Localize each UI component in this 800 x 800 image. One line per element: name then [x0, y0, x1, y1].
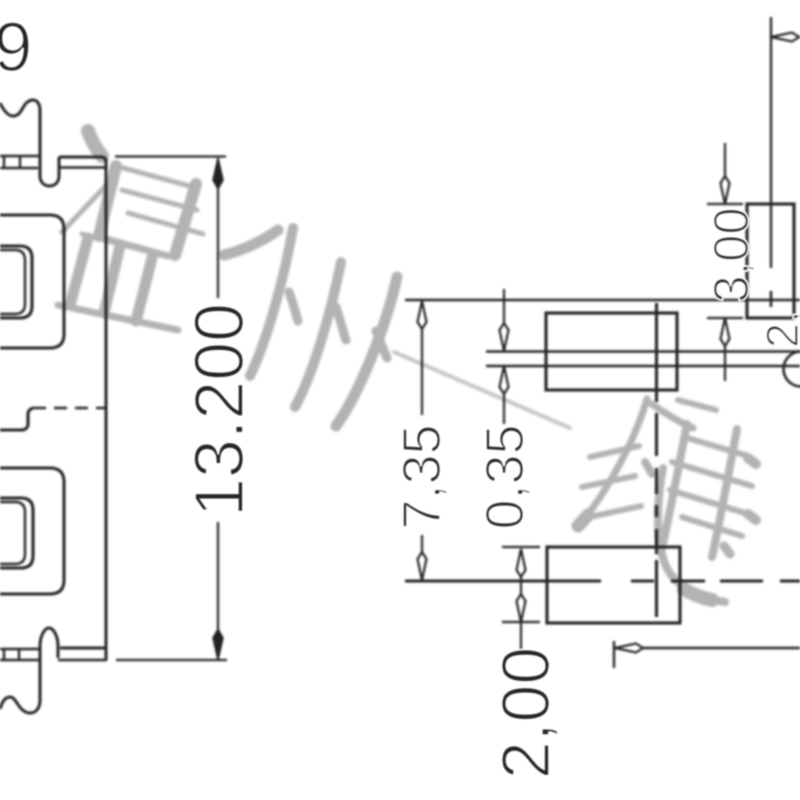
left view top rail lower line — [0, 167, 38, 170]
left view top rail upper line — [0, 155, 40, 158]
svg-text:7,35: 7,35 — [392, 424, 452, 529]
top rail tick 1 — [3, 156, 5, 168]
top right arrow — [771, 33, 799, 42]
dim 3,00 arrow lower — [721, 318, 730, 346]
svg-text:0,35: 0,35 — [475, 424, 535, 529]
watermark jian brush rung 4 — [682, 517, 742, 536]
vertical centerline seg 3 — [655, 468, 658, 494]
top pad — [546, 313, 677, 390]
watermark jian brush rung tip 2 — [748, 514, 756, 520]
dim 7,35 line upper — [421, 328, 423, 415]
svg-text:13.200: 13.200 — [180, 303, 258, 517]
watermark zhou stroke 1 — [250, 228, 293, 376]
button 1 inner A — [0, 246, 32, 318]
watermark zhou stroke 3 — [336, 277, 397, 426]
watermark jian metal falling tip — [578, 515, 588, 526]
watermark wen dish — [58, 234, 178, 330]
watermark jian small flick b — [724, 546, 730, 554]
svg-text:9: 9 — [0, 8, 32, 86]
watermark jian metal rung 2 — [582, 476, 635, 487]
tall pad — [747, 204, 794, 318]
dim 13.200 bottom extension — [116, 659, 227, 661]
dim 3,00 upper tail — [724, 143, 726, 177]
dim 3,00 tick upper — [707, 203, 743, 205]
bottom rail upper line — [0, 648, 40, 651]
datum circle — [784, 352, 800, 387]
footprint reference line — [405, 299, 800, 301]
bottom rail tick 1 — [3, 649, 5, 660]
top right extension line — [770, 17, 772, 268]
horizontal centerline seg 1 — [405, 579, 601, 582]
dim 2,00 tick lower — [502, 621, 540, 623]
dim 3,00 lower tail — [724, 345, 726, 381]
watermark yi stroke — [394, 352, 570, 428]
top right dim line — [771, 36, 800, 38]
dim 2,00 tick upper — [502, 546, 540, 548]
top terminal spring — [0, 100, 59, 186]
watermark wen water-dot — [88, 131, 102, 156]
top rail tick 2 — [19, 156, 21, 168]
body bottom edge — [60, 647, 106, 650]
dim 13.200 top extension — [115, 155, 226, 157]
watermark layer — [58, 131, 756, 602]
watermark jian brush vertical 1 — [661, 424, 687, 553]
vertical centerline seg 4 — [655, 505, 658, 517]
watermark jian brush rung 1 — [684, 437, 748, 456]
bottom sub-line — [58, 659, 107, 662]
watermark jian sweep tip — [684, 589, 712, 600]
watermark jian small flick a — [645, 462, 652, 474]
footprint edge line upper — [486, 350, 800, 353]
dim 3,00 arrow upper — [721, 176, 730, 204]
watermark jian metal falling stroke — [580, 399, 647, 524]
dim 0,35 arrow upper — [500, 323, 509, 351]
watermark jian brush rung 3 — [670, 490, 748, 514]
bottom right tick — [613, 641, 615, 668]
watermark zhou stroke 2 — [295, 262, 341, 407]
dim 13.200 line upper — [217, 158, 219, 298]
dim 3,00 tick lower — [707, 317, 743, 319]
footprint edge line lower — [486, 365, 800, 368]
svg-text:2,: 2, — [757, 310, 800, 348]
dim 13.200 line lower — [217, 522, 219, 632]
bottom terminal spring — [0, 628, 58, 713]
dim 2,00 mid line — [520, 576, 522, 595]
dim 7,35 arrow bottom — [418, 552, 427, 580]
vertical centerline seg 2 — [655, 413, 658, 456]
button 1 inner B — [0, 250, 25, 314]
button 2 inner A — [0, 498, 33, 568]
horizontal centerline seg 5 — [780, 579, 800, 582]
dim 0,35 arrow lower — [500, 366, 509, 394]
vertical centerline seg 6 — [655, 560, 658, 617]
bottom rail lower line — [0, 659, 40, 662]
bottom rail tick 2 — [18, 649, 20, 660]
svg-text:3,00: 3,00 — [705, 207, 759, 302]
middle step curve — [0, 408, 33, 430]
middle step hidden line — [33, 407, 106, 410]
top sub-line — [60, 166, 105, 169]
watermark jian metal rung 3 — [585, 506, 641, 518]
dim 13.200 arrow top — [213, 158, 223, 189]
button 2 outer — [0, 468, 64, 594]
dim 0,35 line lower — [503, 393, 505, 424]
watermark jian stride sweep — [658, 468, 725, 602]
watermark jian brush vertical 2 — [712, 429, 737, 557]
watermark zhou dot 3 — [376, 331, 387, 358]
bottom right dim line — [615, 647, 800, 649]
dim 0,35 line upper — [503, 289, 505, 324]
pad center cross mark — [770, 291, 773, 307]
horizontal centerline seg 3 — [671, 579, 705, 582]
watermark jian brush rung tip 1 — [748, 458, 756, 464]
dim 7,35 line lower — [421, 535, 423, 556]
watermark jian brush top mark — [678, 400, 716, 410]
dim 2,00 lower tail — [520, 622, 522, 654]
dim 2,00 arrow upper — [517, 549, 526, 577]
vertical centerline seg 5 — [655, 529, 658, 554]
vertical centerline seg 1 — [655, 303, 658, 402]
watermark jian metal rung 1 — [590, 446, 639, 457]
bottom right arrow — [615, 644, 643, 653]
watermark wen sun-box — [99, 166, 203, 257]
button 2 inner B — [0, 502, 25, 564]
dim 7,35 arrow top — [418, 301, 427, 329]
horizontal centerline seg 2 — [631, 579, 654, 582]
bottom pad — [547, 547, 680, 623]
dim 13.200 arrow bottom — [213, 629, 223, 660]
dim 2,00 arrow lower — [517, 594, 526, 622]
body top edge and right edge — [59, 157, 106, 660]
watermark zhou dot 2 — [336, 307, 346, 340]
watermark wen rising flick — [62, 174, 117, 232]
horizontal centerline seg 4 — [720, 579, 763, 582]
button 1 outer — [0, 215, 64, 348]
watermark jian metal right stroke — [652, 404, 693, 428]
watermark zhou dot 1 — [289, 292, 298, 321]
svg-text:2,00: 2,00 — [488, 647, 564, 779]
watermark jian brush rung 2 — [672, 462, 752, 486]
watermark zhou check swoosh — [224, 230, 278, 255]
